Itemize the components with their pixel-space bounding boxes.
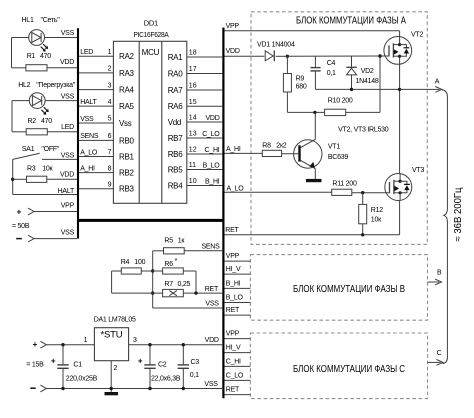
svg-text:RA0: RA0 bbox=[168, 69, 184, 78]
svg-text:1: 1 bbox=[108, 49, 112, 56]
svg-text:4: 4 bbox=[108, 99, 112, 106]
svg-text:BC639: BC639 bbox=[328, 154, 349, 161]
svg-text:15: 15 bbox=[189, 99, 197, 106]
svg-text:0,1: 0,1 bbox=[190, 372, 199, 379]
svg-text:RET: RET bbox=[205, 286, 219, 293]
svg-text:PIC16F628A: PIC16F628A bbox=[134, 30, 169, 39]
svg-text:Vdd: Vdd bbox=[168, 118, 181, 127]
svg-text:3: 3 bbox=[108, 82, 112, 89]
svg-text:C1: C1 bbox=[73, 362, 82, 369]
svg-text:6: 6 bbox=[108, 133, 112, 140]
svg-text:+: + bbox=[17, 207, 22, 216]
svg-text:DA1 LM78L05: DA1 LM78L05 bbox=[94, 316, 136, 323]
svg-text:10к: 10к bbox=[371, 217, 382, 224]
svg-text:RA4: RA4 bbox=[119, 86, 135, 95]
svg-text:RA1: RA1 bbox=[168, 53, 184, 62]
svg-text:C_HI: C_HI bbox=[226, 358, 241, 365]
svg-text:B_HI: B_HI bbox=[226, 280, 241, 287]
svg-text:VSS: VSS bbox=[80, 116, 94, 123]
svg-text:VT2, VT3 IRL530: VT2, VT3 IRL530 bbox=[338, 126, 389, 133]
svg-text:680: 680 bbox=[296, 84, 307, 91]
svg-text:HALT: HALT bbox=[58, 188, 75, 195]
svg-text:C_LO: C_LO bbox=[226, 372, 244, 379]
svg-text:A: A bbox=[435, 78, 440, 85]
svg-text:VD1 1N4004: VD1 1N4004 bbox=[257, 42, 295, 49]
svg-text:RB3: RB3 bbox=[119, 185, 135, 194]
svg-text:8: 8 bbox=[108, 165, 112, 172]
svg-text:R3: R3 bbox=[27, 166, 36, 173]
svg-text:2: 2 bbox=[108, 66, 112, 73]
svg-text:+: + bbox=[33, 340, 38, 349]
svg-text:R5: R5 bbox=[164, 238, 173, 245]
svg-text:RB5: RB5 bbox=[168, 165, 184, 174]
svg-text:RB4: RB4 bbox=[168, 181, 184, 190]
svg-text:R8: R8 bbox=[262, 143, 271, 150]
svg-text:22,0х6,3В: 22,0х6,3В bbox=[151, 375, 181, 382]
svg-text:SENS: SENS bbox=[80, 133, 99, 140]
svg-text:RB0: RB0 bbox=[119, 136, 135, 145]
svg-text:R11 200: R11 200 bbox=[332, 181, 357, 188]
svg-text:LED: LED bbox=[80, 49, 93, 56]
svg-text:RA6: RA6 bbox=[168, 102, 184, 111]
svg-text:RB6: RB6 bbox=[168, 150, 184, 159]
svg-text:1N4148: 1N4148 bbox=[356, 78, 379, 85]
svg-text:18: 18 bbox=[189, 50, 197, 57]
svg-text:"Сеть": "Сеть" bbox=[41, 17, 61, 24]
svg-text:100: 100 bbox=[134, 259, 145, 266]
svg-text:RET: RET bbox=[225, 227, 239, 234]
svg-text:VDD: VDD bbox=[226, 48, 240, 55]
svg-text:C3: C3 bbox=[191, 359, 200, 366]
svg-text:HI_V: HI_V bbox=[226, 345, 241, 352]
svg-text:1: 1 bbox=[84, 337, 88, 344]
svg-text:VT1: VT1 bbox=[328, 144, 340, 151]
svg-text:R1: R1 bbox=[27, 53, 36, 60]
svg-text:5: 5 bbox=[108, 116, 112, 123]
svg-text:A_HI: A_HI bbox=[80, 165, 95, 172]
svg-text:R12: R12 bbox=[371, 207, 383, 214]
svg-text:RA3: RA3 bbox=[119, 69, 135, 78]
svg-text:C: C bbox=[437, 350, 442, 357]
svg-text:A_LO: A_LO bbox=[80, 149, 98, 156]
svg-text:R10 200: R10 200 bbox=[328, 98, 353, 105]
svg-text:220,0х25В: 220,0х25В bbox=[66, 375, 98, 382]
svg-text:+: + bbox=[51, 356, 56, 365]
svg-text:VPP: VPP bbox=[226, 23, 240, 30]
svg-text:VPP: VPP bbox=[226, 253, 240, 260]
svg-text:LED: LED bbox=[61, 124, 74, 131]
svg-text:RA7: RA7 bbox=[168, 86, 184, 95]
svg-text:VT3: VT3 bbox=[412, 167, 424, 174]
svg-text:HI_V: HI_V bbox=[226, 266, 241, 273]
svg-text:VD2: VD2 bbox=[361, 68, 374, 75]
svg-text:11: 11 bbox=[189, 162, 196, 169]
svg-text:C_HI: C_HI bbox=[205, 147, 220, 154]
svg-text:2к2: 2к2 bbox=[276, 143, 286, 150]
svg-text:RB2: RB2 bbox=[119, 169, 135, 178]
svg-text:R4: R4 bbox=[121, 259, 130, 266]
svg-text:VSS: VSS bbox=[61, 153, 75, 160]
svg-text:14: 14 bbox=[189, 115, 197, 122]
svg-text:RA5: RA5 bbox=[119, 102, 135, 111]
svg-text:VSS: VSS bbox=[205, 300, 219, 307]
svg-text:*STU: *STU bbox=[101, 330, 123, 341]
svg-text:470: 470 bbox=[40, 53, 51, 60]
svg-text:R6: R6 bbox=[164, 261, 173, 268]
svg-text:SENS: SENS bbox=[201, 243, 220, 250]
svg-text:B_HI: B_HI bbox=[205, 178, 220, 185]
svg-text:VSS: VSS bbox=[61, 30, 75, 37]
svg-text:13: 13 bbox=[189, 131, 197, 138]
svg-text:R9: R9 bbox=[296, 76, 305, 83]
svg-text:0,25: 0,25 bbox=[178, 281, 191, 288]
svg-text:VSS: VSS bbox=[61, 94, 75, 101]
svg-text:B_LO: B_LO bbox=[226, 294, 244, 301]
svg-text:17: 17 bbox=[189, 66, 197, 73]
svg-text:+: + bbox=[138, 356, 143, 365]
svg-text:VDD: VDD bbox=[205, 115, 219, 122]
svg-text:R7: R7 bbox=[164, 281, 173, 288]
svg-text:RB7: RB7 bbox=[168, 134, 184, 143]
svg-text:A_LO: A_LO bbox=[227, 185, 245, 192]
svg-text:RET: RET bbox=[226, 387, 240, 394]
svg-text:3: 3 bbox=[133, 337, 137, 344]
svg-text:VPP: VPP bbox=[226, 331, 240, 338]
svg-text:БЛОК КОММУТАЦИИ ФАЗЫ С: БЛОК КОММУТАЦИИ ФАЗЫ С bbox=[293, 364, 405, 375]
svg-text:16: 16 bbox=[189, 83, 197, 90]
svg-text:A_HI: A_HI bbox=[226, 146, 241, 153]
svg-text:VPP: VPP bbox=[61, 203, 75, 210]
svg-text:≈ 36В 200Гц: ≈ 36В 200Гц bbox=[453, 187, 464, 241]
svg-text:7: 7 bbox=[108, 149, 112, 156]
svg-text:B: B bbox=[437, 269, 442, 276]
svg-text:БЛОК КОММУТАЦИИ ФАЗЫ В: БЛОК КОММУТАЦИИ ФАЗЫ В bbox=[293, 284, 405, 295]
svg-text:C2: C2 bbox=[158, 362, 167, 369]
svg-text:VDD: VDD bbox=[60, 171, 74, 178]
svg-text:B_LO: B_LO bbox=[203, 162, 221, 169]
svg-text:= 50В: = 50В bbox=[12, 223, 30, 230]
svg-text:10: 10 bbox=[189, 178, 197, 185]
svg-text:"OFF": "OFF" bbox=[41, 146, 59, 153]
svg-text:2: 2 bbox=[114, 365, 118, 372]
svg-text:DD1: DD1 bbox=[144, 18, 158, 27]
svg-text:VSS: VSS bbox=[204, 381, 218, 388]
svg-text:SA1: SA1 bbox=[22, 146, 35, 153]
svg-text:C4: C4 bbox=[327, 60, 336, 67]
svg-text:470: 470 bbox=[41, 118, 52, 125]
svg-text:C_LO: C_LO bbox=[202, 131, 220, 138]
svg-text:0,1: 0,1 bbox=[327, 70, 336, 77]
svg-text:VDD: VDD bbox=[60, 59, 74, 66]
svg-text:RA2: RA2 bbox=[119, 52, 135, 61]
svg-text:MCU: MCU bbox=[142, 48, 160, 57]
svg-text:= 15В: = 15В bbox=[26, 362, 44, 369]
svg-text:9: 9 bbox=[108, 181, 112, 188]
svg-text:HL2: HL2 bbox=[18, 82, 30, 89]
svg-text:VSS: VSS bbox=[61, 230, 75, 237]
svg-text:RB1: RB1 bbox=[119, 152, 135, 161]
svg-text:HL1: HL1 bbox=[22, 17, 34, 24]
svg-text:VDD: VDD bbox=[205, 337, 219, 344]
svg-text:R2: R2 bbox=[28, 118, 37, 125]
svg-text:Vss: Vss bbox=[119, 119, 132, 128]
svg-text:12: 12 bbox=[189, 147, 197, 154]
svg-text:RET: RET bbox=[226, 307, 240, 314]
svg-text:VT2: VT2 bbox=[411, 32, 423, 39]
svg-text:БЛОК КОММУТАЦИИ ФАЗЫ А: БЛОК КОММУТАЦИИ ФАЗЫ А bbox=[296, 16, 406, 27]
svg-text:HALT: HALT bbox=[80, 99, 97, 106]
svg-text:"Перегрузка": "Перегрузка" bbox=[36, 82, 76, 89]
svg-text:10к: 10к bbox=[42, 166, 53, 173]
